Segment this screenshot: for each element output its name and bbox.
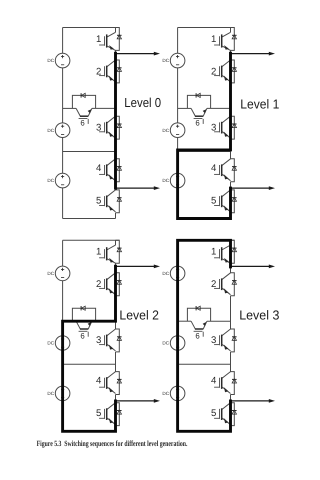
dc source V2 level0 circuit — [47, 123, 70, 138]
svg-text:5: 5 — [211, 195, 216, 206]
svg-text:6: 6 — [80, 332, 84, 341]
diode D6 level1 circuit — [187, 93, 210, 108]
wire middle tap level3 circuit — [178, 363, 231, 365]
svg-text:DC: DC — [162, 178, 169, 183]
transistor Q6 level2 circuit — [76, 321, 92, 337]
wire middle tap level2 circuit — [63, 363, 116, 365]
output arrow bottom level1 circuit — [231, 186, 276, 190]
svg-text:2: 2 — [211, 66, 216, 77]
label 2 level3 circuit — [211, 279, 216, 290]
label 6 level0 circuit — [80, 119, 84, 128]
svg-text:5: 5 — [211, 408, 216, 419]
transistor Q2 level2 circuit — [99, 273, 122, 296]
wire top bus level2 circuit — [63, 239, 120, 241]
diode D6 level0 circuit — [72, 93, 95, 108]
transistor Q3 level0 circuit — [99, 116, 122, 139]
svg-text:5: 5 — [96, 195, 101, 206]
dc source V2 level2 circuit — [47, 336, 70, 351]
transistor Q2 level1 circuit — [214, 60, 237, 83]
svg-text:5: 5 — [96, 408, 101, 419]
transistor Q3 level2 circuit — [99, 329, 122, 352]
svg-text:DC: DC — [162, 128, 169, 133]
output arrow top level1 circuit — [231, 52, 276, 56]
output arrow top level3 circuit — [231, 265, 276, 269]
transistor Q4 level3 circuit — [214, 372, 237, 395]
wire top bus level3 circuit — [178, 239, 235, 241]
svg-text:DC: DC — [47, 271, 54, 276]
label 2 level2 circuit — [96, 279, 101, 290]
wire bottom bus level0 circuit — [63, 218, 116, 220]
svg-text:Level 1: Level 1 — [240, 96, 279, 111]
wire switch6 branch level1 circuit — [178, 107, 231, 109]
label 4 level1 circuit — [211, 163, 217, 174]
conduction path level 1 — [178, 53, 231, 218]
svg-text:4: 4 — [211, 376, 217, 387]
label 4 level2 circuit — [96, 376, 102, 387]
svg-text:2: 2 — [96, 66, 101, 77]
svg-text:DC: DC — [162, 391, 169, 396]
svg-text:1: 1 — [96, 247, 101, 258]
label 3 level3 circuit — [211, 335, 216, 346]
wire top bus level0 circuit — [63, 27, 120, 29]
svg-text:4: 4 — [211, 163, 217, 174]
wire middle tap level1 circuit — [178, 151, 231, 153]
wire stack rail level3 circuit — [230, 240, 232, 431]
svg-text:Level 0: Level 0 — [124, 95, 161, 110]
svg-text:DC: DC — [162, 341, 169, 346]
svg-text:6: 6 — [195, 119, 199, 128]
svg-text:Figure 5.3 Switching sequence: Figure 5.3 Switching sequences for diffe… — [37, 439, 188, 448]
transistor Q1 level1 circuit — [214, 28, 237, 51]
svg-text:3: 3 — [211, 335, 216, 346]
wire stack rail level1 circuit — [230, 28, 232, 219]
transistor Q4 level2 circuit — [99, 372, 122, 395]
transistor Q1 level2 circuit — [99, 240, 122, 263]
output arrow top level0 circuit — [116, 52, 161, 56]
svg-text:DC: DC — [47, 178, 54, 183]
svg-text:DC: DC — [47, 128, 54, 133]
output arrow bottom level2 circuit — [116, 399, 161, 403]
dc source V2 level3 circuit — [162, 336, 185, 351]
transistor Q4 level1 circuit — [214, 159, 237, 182]
dc source V1 level1 circuit — [162, 53, 185, 68]
label 2 level1 circuit — [211, 66, 216, 77]
transistor Q2 level0 circuit — [99, 60, 122, 83]
transistor Q6 level3 circuit — [191, 321, 207, 337]
wire switch6 branch level2 circuit — [63, 320, 116, 322]
dc source V3 level2 circuit — [47, 386, 70, 401]
dc source V1 level0 circuit — [47, 53, 70, 68]
svg-text:DC: DC — [47, 58, 54, 63]
transistor Q6 level1 circuit — [191, 108, 207, 124]
label 3 level0 circuit — [96, 122, 101, 133]
conduction path level 2 — [63, 266, 116, 431]
svg-text:2: 2 — [211, 279, 216, 290]
svg-text:4: 4 — [96, 163, 102, 174]
svg-text:3: 3 — [96, 122, 101, 133]
transistor Q1 level0 circuit — [99, 28, 122, 51]
svg-text:DC: DC — [47, 341, 54, 346]
diode D6 level3 circuit — [187, 306, 210, 321]
wire bottom bus level1 circuit — [178, 218, 231, 220]
svg-text:Level 2: Level 2 — [119, 307, 158, 322]
label 4 level0 circuit — [96, 163, 102, 174]
label 5 level1 circuit — [211, 195, 216, 206]
transistor Q5 level2 circuit — [99, 403, 122, 426]
wire stack rail level0 circuit — [115, 28, 117, 219]
svg-text:1: 1 — [211, 247, 216, 258]
label 3 level1 circuit — [211, 122, 216, 133]
conduction path level 3 — [178, 240, 231, 431]
wire middle tap level0 circuit — [63, 151, 116, 153]
dc source V1 level2 circuit — [47, 266, 70, 281]
svg-text:1: 1 — [211, 34, 216, 45]
label 1 level0 circuit — [96, 34, 101, 45]
wire left rail level3 circuit — [177, 240, 179, 431]
wire stack rail level2 circuit — [115, 240, 117, 431]
dc source V2 level1 circuit — [162, 123, 185, 138]
wire bottom bus level2 circuit — [63, 430, 116, 432]
label 1 level3 circuit — [211, 247, 216, 258]
transistor Q6 level0 circuit — [76, 108, 92, 124]
transistor Q2 level3 circuit — [214, 273, 237, 296]
wire top bus level1 circuit — [178, 27, 235, 29]
label 5 level2 circuit — [96, 408, 101, 419]
transistor Q5 level0 circuit — [99, 190, 122, 213]
output arrow top level2 circuit — [116, 265, 161, 269]
wire left rail level2 circuit — [62, 240, 64, 431]
svg-text:DC: DC — [162, 58, 169, 63]
dc source V1 level3 circuit — [162, 266, 185, 281]
label 6 level1 circuit — [195, 119, 199, 128]
label 5 level0 circuit — [96, 195, 101, 206]
label 4 level3 circuit — [211, 376, 217, 387]
svg-text:3: 3 — [96, 335, 101, 346]
label 1 level1 circuit — [211, 34, 216, 45]
dc source V3 level1 circuit — [162, 173, 185, 188]
diode D6 level2 circuit — [72, 306, 95, 321]
svg-text:6: 6 — [195, 332, 199, 341]
label 3 level2 circuit — [96, 335, 101, 346]
svg-text:6: 6 — [80, 119, 84, 128]
label 6 level3 circuit — [195, 332, 199, 341]
label 2 level0 circuit — [96, 66, 101, 77]
transistor Q4 level0 circuit — [99, 159, 122, 182]
transistor Q3 level1 circuit — [214, 116, 237, 139]
wire switch6 branch level0 circuit — [63, 107, 116, 109]
output arrow bottom level0 circuit — [116, 186, 161, 190]
wire bottom bus level3 circuit — [178, 430, 231, 432]
label 5 level3 circuit — [211, 408, 216, 419]
label 6 level2 circuit — [80, 332, 84, 341]
dc source V3 level3 circuit — [162, 386, 185, 401]
transistor Q5 level3 circuit — [214, 403, 237, 426]
transistor Q5 level1 circuit — [214, 190, 237, 213]
transistor Q3 level3 circuit — [214, 329, 237, 352]
svg-text:2: 2 — [96, 279, 101, 290]
transistor Q1 level3 circuit — [214, 240, 237, 263]
dc source V3 level0 circuit — [47, 173, 70, 188]
conduction path level 0 — [114, 53, 117, 188]
svg-text:1: 1 — [96, 34, 101, 45]
svg-text:DC: DC — [47, 391, 54, 396]
svg-text:3: 3 — [211, 122, 216, 133]
wire left rail level0 circuit — [62, 28, 64, 219]
label 1 level2 circuit — [96, 247, 101, 258]
output arrow bottom level3 circuit — [231, 399, 276, 403]
svg-text:Level 3: Level 3 — [239, 308, 279, 323]
wire left rail level1 circuit — [177, 28, 179, 219]
wire switch6 branch level3 circuit — [178, 320, 231, 322]
svg-text:DC: DC — [162, 271, 169, 276]
svg-text:4: 4 — [96, 376, 102, 387]
